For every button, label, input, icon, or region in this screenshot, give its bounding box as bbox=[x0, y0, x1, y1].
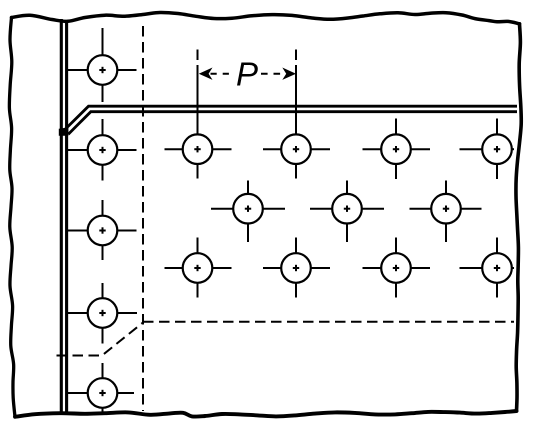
hidden edge vertical dashed line bbox=[142, 26, 144, 411]
rivet hole C1 bbox=[165, 238, 232, 298]
rivet hole B1 bbox=[211, 181, 285, 243]
rivet hole A3 bbox=[363, 119, 431, 180]
rivet hole L5 bbox=[66, 363, 134, 415]
plate edge top double line, inner with 45-deg bend bbox=[68, 112, 517, 135]
rivet hole C3 bbox=[363, 238, 431, 298]
break line bottom bbox=[15, 411, 517, 417]
break line top bbox=[12, 12, 520, 23]
dimension P right arrowhead bbox=[282, 68, 296, 80]
hidden edge chamfer dashed line bbox=[57, 323, 144, 356]
rivet hole A1 bbox=[165, 134, 232, 178]
rivet hole B2 bbox=[310, 181, 384, 243]
rivet hole L1 bbox=[68, 28, 137, 102]
break line right bbox=[516, 24, 521, 411]
rivet hole L3 bbox=[67, 200, 137, 260]
dimension P dimension line left dashed segment bbox=[211, 73, 232, 75]
rivet hole C2 bbox=[263, 238, 330, 298]
rivet hole C4 bbox=[460, 238, 515, 298]
dimension P left arrowhead bbox=[199, 68, 213, 80]
rivet hole L4 bbox=[67, 283, 137, 344]
rivet hole A2 bbox=[263, 134, 330, 178]
hidden edge horizontal dashed line bbox=[143, 321, 514, 323]
plate edge top double line, outer with 45-deg bend bbox=[62, 106, 517, 132]
centerline for hole A1 above plate (dash + solid) bbox=[197, 50, 199, 61]
rivet hole L2 bbox=[67, 119, 137, 181]
angle edge vertical double line, inner bbox=[65, 20, 68, 414]
break line left bbox=[9, 18, 15, 417]
angle edge vertical double line, outer bbox=[60, 19, 63, 414]
svg-text:P: P bbox=[236, 56, 258, 93]
rivet hole B3 bbox=[410, 181, 482, 243]
rivet hole A4 bbox=[460, 119, 515, 180]
plate bend tip blob bbox=[59, 127, 69, 135]
dimension P dimension line right dashed segment bbox=[261, 73, 281, 75]
centerline for hole A2 above plate (dash + solid) bbox=[295, 50, 297, 61]
